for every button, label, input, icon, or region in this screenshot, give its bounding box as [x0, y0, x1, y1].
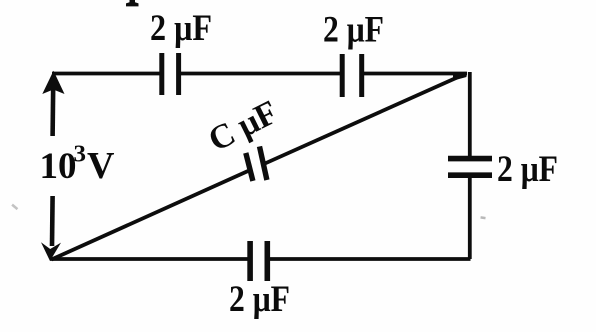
svg-text:2 μF: 2 μF: [497, 149, 558, 190]
svg-text:2 μF: 2 μF: [229, 279, 290, 320]
svg-text:C μF: C μF: [203, 94, 284, 159]
svg-text:10: 10: [40, 146, 77, 187]
svg-text:2 μF: 2 μF: [150, 8, 212, 49]
svg-text:2 μF: 2 μF: [323, 10, 384, 51]
svg-text:V: V: [87, 145, 115, 187]
svg-text:3: 3: [74, 142, 87, 168]
